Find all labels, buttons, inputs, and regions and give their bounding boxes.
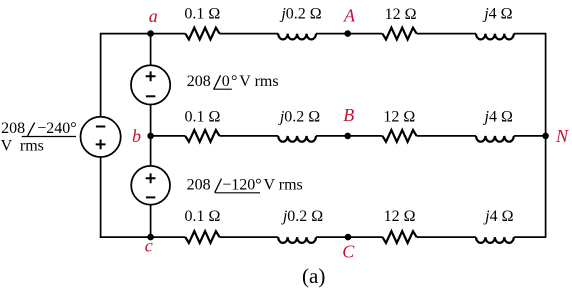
wire right bus bbox=[545, 34, 547, 238]
inductor j0.2 ohm (line b) bbox=[278, 108, 320, 141]
wire left bus bottom segment (source to c) bbox=[100, 157, 102, 238]
wire row c j4 to right bus bbox=[514, 236, 547, 238]
node b bbox=[132, 126, 154, 146]
node c bbox=[145, 234, 154, 256]
svg-text:0.1 Ω: 0.1 Ω bbox=[184, 6, 220, 23]
svg-text:V rms: V rms bbox=[264, 176, 303, 193]
node A bbox=[343, 6, 356, 37]
svg-text:−240°: −240° bbox=[37, 120, 76, 137]
inductor j0.2 ohm (line c) bbox=[278, 208, 323, 243]
node C bbox=[342, 234, 355, 262]
resistor 0.1 ohm (line a) bbox=[184, 6, 220, 40]
voltage source 208/-120 V rms (between b and c) bbox=[131, 166, 170, 205]
svg-text:j4 Ω: j4 Ω bbox=[482, 6, 512, 23]
svg-text:a: a bbox=[149, 6, 158, 26]
svg-text:j4 Ω: j4 Ω bbox=[483, 208, 513, 225]
inductor j4 ohm (line c) bbox=[476, 208, 514, 243]
wire row a 12ohm to j4 bbox=[417, 33, 476, 35]
wire source 3 to node c bbox=[150, 205, 152, 237]
svg-text:V rms: V rms bbox=[239, 73, 278, 90]
svg-text:0.1 Ω: 0.1 Ω bbox=[185, 208, 221, 225]
wire row b resistor to inductor bbox=[220, 135, 279, 137]
wire row a resistor to inductor bbox=[220, 33, 279, 35]
svg-text:C: C bbox=[342, 242, 355, 262]
wire row a j4 to right bus bbox=[514, 33, 547, 35]
inductor j4 ohm (line b) bbox=[476, 108, 514, 141]
svg-text:0°: 0° bbox=[222, 73, 239, 90]
svg-text:208: 208 bbox=[1, 120, 25, 137]
svg-text:b: b bbox=[132, 126, 141, 146]
resistor 12 ohm (line c) bbox=[382, 208, 416, 243]
resistor 12 ohm (line b) bbox=[382, 108, 416, 142]
wire row a inductor to node A bbox=[316, 33, 382, 35]
wire top-left corner to node a bbox=[100, 33, 185, 35]
wire row b j4 to node N bbox=[514, 135, 546, 137]
wire left bus top segment (a to source) bbox=[100, 34, 102, 117]
wire row b inductor to node B bbox=[316, 135, 382, 137]
wire row b 12ohm to j4 bbox=[417, 135, 476, 137]
svg-text:c: c bbox=[145, 236, 153, 256]
label 208/-120 V rms bbox=[187, 176, 303, 193]
node N bbox=[542, 126, 569, 146]
wire row c 12ohm to j4 bbox=[417, 236, 476, 238]
node a bbox=[147, 6, 158, 37]
voltage source 208/0 V rms (between a and b) bbox=[131, 65, 170, 104]
resistor 0.1 ohm (line b) bbox=[185, 108, 221, 142]
svg-text:12 Ω: 12 Ω bbox=[385, 6, 417, 23]
wire bottom-left corner to node c bbox=[100, 236, 185, 238]
label 208/-240 V rms bbox=[1, 120, 77, 155]
svg-text:208: 208 bbox=[187, 73, 211, 90]
wire node a down to source 2 bbox=[150, 34, 152, 66]
svg-text:j4 Ω: j4 Ω bbox=[483, 108, 513, 125]
svg-text:0.1 Ω: 0.1 Ω bbox=[185, 108, 221, 125]
svg-text:A: A bbox=[343, 6, 356, 26]
inductor j0.2 ohm (line a) bbox=[278, 6, 322, 40]
svg-text:B: B bbox=[343, 105, 354, 125]
resistor 12 ohm (line a) bbox=[382, 6, 416, 40]
inductor j4 ohm (line a) bbox=[476, 6, 514, 40]
wire node b down to source 3 bbox=[150, 136, 152, 166]
label 208/0 V rms bbox=[187, 73, 279, 90]
wire source 2 to node b bbox=[150, 105, 152, 136]
svg-text:j0.2 Ω: j0.2 Ω bbox=[278, 108, 320, 125]
wire row c inductor to node C bbox=[316, 236, 382, 238]
node B bbox=[343, 105, 354, 139]
svg-text:12 Ω: 12 Ω bbox=[384, 208, 416, 225]
svg-text:j0.2 Ω: j0.2 Ω bbox=[281, 208, 323, 225]
svg-text:N: N bbox=[555, 126, 569, 146]
wire node b to 0.1 ohm (line b) bbox=[151, 135, 186, 137]
resistor 0.1 ohm (line c) bbox=[185, 208, 221, 243]
voltage source 208/-240 V rms (left) bbox=[81, 117, 121, 157]
wire row c resistor to inductor bbox=[220, 236, 279, 238]
svg-text:V rms: V rms bbox=[1, 138, 44, 155]
svg-text:12 Ω: 12 Ω bbox=[383, 108, 415, 125]
svg-text:−120°: −120° bbox=[222, 176, 261, 193]
svg-text:j0.2 Ω: j0.2 Ω bbox=[279, 6, 321, 23]
svg-text:208: 208 bbox=[187, 176, 211, 193]
svg-text:(a): (a) bbox=[302, 264, 325, 288]
